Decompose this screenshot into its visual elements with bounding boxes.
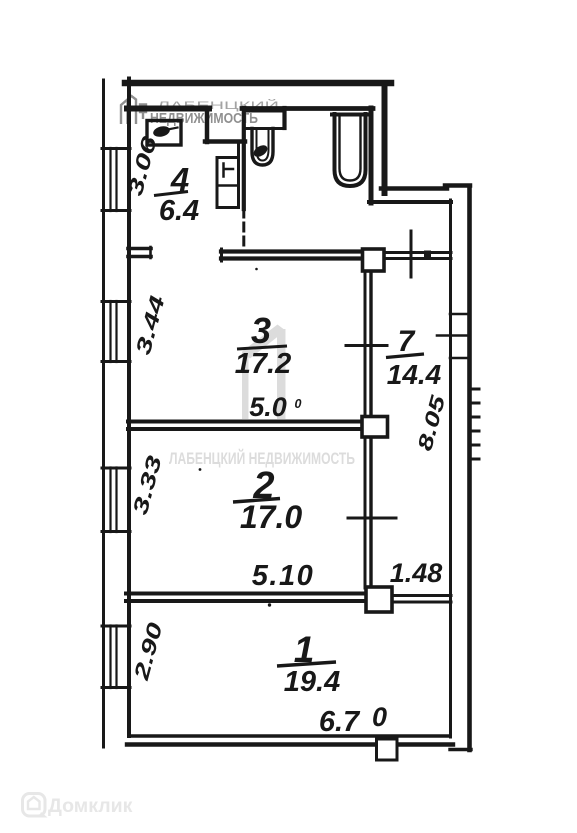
- WC+bath inner top wall: [242, 106, 373, 111]
- room 2 underline: [233, 499, 280, 503]
- kitchen step horizontal: [205, 139, 245, 144]
- toilet bowl outer: [252, 129, 273, 166]
- left outer wall line: [102, 80, 105, 747]
- speck dot left of room3 label: [199, 468, 202, 471]
- room7 top wall dark dash: [424, 251, 431, 258]
- kitchen sink: [147, 121, 181, 146]
- bathtub outer: [335, 114, 366, 186]
- speck dot near kitchen floor wall: [255, 268, 258, 271]
- kitchen top wall: [127, 106, 209, 112]
- window W2 glazing lines: [109, 301, 111, 362]
- svg-text:6.7: 6.7: [319, 706, 361, 738]
- window W3 glazing lines: [109, 468, 111, 533]
- left inner wall line: [127, 79, 131, 737]
- watermark center building shape: [242, 352, 249, 419]
- dimension tick room7 top: [410, 231, 413, 277]
- svg-text:14.4: 14.4: [387, 359, 442, 390]
- window W4 glazing lines: [109, 626, 111, 689]
- window W1 glazing lines: [109, 148, 111, 211]
- svg-text:5.10: 5.10: [252, 560, 314, 592]
- toilet tank: [244, 111, 285, 129]
- speck dot room1: [268, 603, 271, 606]
- top wall right vertical (x=384): [382, 83, 388, 193]
- right inner wall line: [449, 200, 452, 737]
- bottom wall inner line: [130, 734, 450, 737]
- pier box 2: [362, 417, 388, 438]
- kitchen step vertical: [205, 108, 210, 142]
- kitchen/WC wall right line: [242, 108, 246, 209]
- window W3 room2: caps: [102, 467, 130, 470]
- duct box: [217, 158, 239, 208]
- watermark logo top-left: [121, 96, 146, 124]
- step wall lower line: [369, 200, 451, 204]
- right wall rung 3: [450, 357, 470, 360]
- right wall rung 1: [450, 313, 470, 316]
- room 4 underline: [154, 192, 188, 196]
- room7 top wall: [384, 251, 451, 254]
- window W4 room1: caps: [102, 625, 130, 628]
- kitchen floor wall main: [221, 249, 364, 253]
- svg-text:3: 3: [251, 310, 271, 351]
- bottom wall outer line: [127, 742, 453, 746]
- right wall bottom cap: [450, 748, 471, 751]
- room 3 underline: [237, 346, 287, 349]
- right wall rung 2: [437, 334, 470, 337]
- svg-text:1.48: 1.48: [390, 558, 443, 588]
- duct box mark: [224, 164, 234, 177]
- step wall upper line: [381, 186, 447, 191]
- room2/1 wall right part: [391, 594, 451, 597]
- WC/bath divider wall: [282, 108, 286, 128]
- dimension tick room2/7 wall: [348, 517, 396, 520]
- room3/7 wall right line: [369, 271, 372, 417]
- svg-text:0: 0: [295, 397, 302, 411]
- room2/1 wall left part: [126, 592, 367, 596]
- right wall outside dashes: [472, 388, 479, 391]
- room 1 underline: [277, 662, 336, 666]
- watermark Domclick logo bottom-left: [23, 794, 48, 818]
- duct box divider: [217, 184, 239, 187]
- room3/7 wall left line: [364, 271, 367, 417]
- svg-text:0: 0: [372, 702, 387, 732]
- room 7 underline: [386, 354, 424, 358]
- kitchen sink faucet: [152, 125, 171, 139]
- right outer wall line: [467, 186, 472, 750]
- svg-text:17.0: 17.0: [240, 499, 302, 535]
- toilet bowl inner: [257, 129, 269, 161]
- svg-text:6.4: 6.4: [159, 195, 199, 227]
- dimension tick room3/7 wall: [346, 344, 387, 347]
- kitchen/WC wall left line: [237, 141, 240, 158]
- svg-text:7: 7: [398, 325, 416, 358]
- pier box 3: [366, 587, 392, 612]
- bathtub inner: [340, 117, 361, 181]
- svg-text:5.0: 5.0: [249, 392, 287, 422]
- WC door dashed line: [242, 209, 245, 248]
- bathtub rim cap: [332, 113, 368, 117]
- bathroom east wall: [369, 108, 374, 203]
- kitchen floor wall left tab: [128, 247, 151, 251]
- outer top wall: [125, 80, 391, 87]
- svg-text:Домклик: Домклик: [48, 795, 133, 817]
- window W2 room3: caps: [102, 300, 130, 303]
- svg-text:19.4: 19.4: [284, 666, 340, 698]
- bottom wall rect: [377, 739, 398, 760]
- toilet seat blob: [252, 143, 270, 159]
- svg-text:17.2: 17.2: [235, 348, 291, 380]
- pier box 1: [363, 249, 385, 271]
- window W1 room4: caps: [102, 147, 130, 150]
- room3/2 wall: [128, 420, 362, 424]
